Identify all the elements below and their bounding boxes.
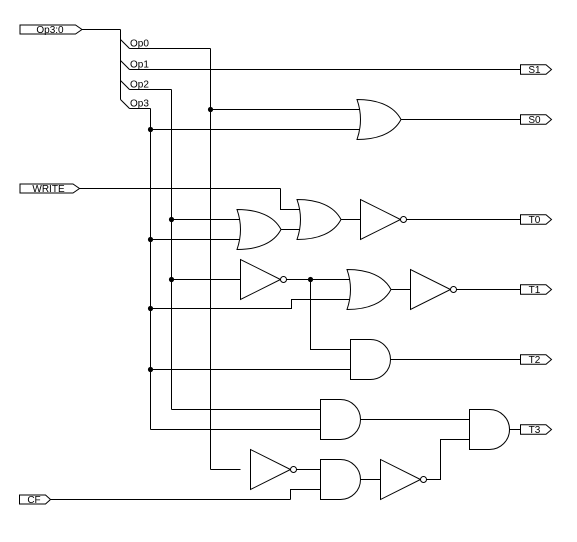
svg-text:Op1: Op1 (130, 60, 149, 71)
output tag S0 (521, 115, 552, 125)
wire U3 output to U4 input (341, 219, 361, 221)
inverter U5 (241, 260, 281, 300)
junction Op2/U2 (169, 217, 174, 222)
svg-text:CF: CF (27, 495, 40, 506)
wire branch taper Op2 (121, 81, 130, 90)
junction Op3/U8 (148, 367, 153, 372)
wire WRITE horizontal (80, 188, 281, 190)
wire Op3 to U2 or-gate input B (151, 239, 244, 241)
wire CF horizontal (51, 499, 291, 501)
wire Op3 to U9 and-gate input B (151, 429, 321, 431)
wire U5 output branch to U8 input A (311, 280, 351, 350)
output tag T2 (521, 355, 552, 365)
and-gate U8 (T2) (351, 340, 391, 380)
wire U11 output to U12 input A (297, 469, 321, 471)
junction Op3/U2 (148, 237, 153, 242)
wire Op2 to U5 inverter input (172, 279, 241, 281)
svg-text:Op3:0: Op3:0 (36, 25, 64, 36)
inverter U13 (381, 460, 421, 500)
and-gate U10 (T3) (470, 410, 510, 450)
and-gate U9 (321, 400, 361, 440)
wire U4 output to T0 (407, 219, 521, 221)
output tag T0 (521, 215, 552, 225)
wire U5 output to U6 input A (287, 279, 353, 281)
junction Op3/U1 (148, 127, 153, 132)
wire bus Op3:0 vertical (120, 30, 122, 100)
wire Op3 vertical (150, 109, 152, 430)
wire Op0 horizontal (130, 48, 211, 50)
svg-text:T0: T0 (529, 215, 541, 226)
wire U9 output to U10 input A (361, 419, 470, 421)
svg-text:Op0: Op0 (130, 39, 149, 50)
junction Op0/U1 (208, 107, 213, 112)
or-gate U6 (T1) (347, 270, 391, 310)
and-gate U12 (321, 460, 361, 500)
svg-text:T3: T3 (529, 425, 541, 436)
output tag T1 (521, 285, 552, 295)
wire CF step up to U12 input B (291, 490, 321, 500)
output tag T3 (521, 425, 552, 435)
wire U12 output to U13 input (361, 479, 381, 481)
junction Op2/U5 (169, 277, 174, 282)
svg-text:S0: S0 (528, 115, 541, 126)
wire bus Op3:0 horizontal (82, 29, 121, 31)
inverter U11 (251, 450, 291, 490)
svg-text:S1: S1 (528, 65, 541, 76)
wire Op2 vertical (171, 90, 173, 410)
or-gate U2 (237, 210, 281, 250)
wire Op3 to U8 and-gate input B (151, 369, 351, 371)
wire Op3 to U1 or-gate input B (151, 129, 364, 131)
wire U7 output to T1 (457, 289, 521, 291)
wire WRITE branch down to U3 input A (281, 189, 304, 210)
wire Op0 vertical (210, 49, 212, 470)
svg-text:Op2: Op2 (130, 80, 149, 91)
or-gate U1 (S0) (357, 100, 401, 140)
output tag S1 (521, 65, 552, 75)
wire Op0 to U1 or-gate input A (211, 109, 364, 111)
wire branch taper Op3 (121, 100, 130, 109)
svg-text:Op3: Op3 (130, 99, 149, 110)
wire U10 output to T3 (510, 429, 521, 431)
junction U5 output node (308, 277, 313, 282)
wire U6 output to U7 input (391, 289, 411, 291)
wire Op3 to U6 or-gate input B (step) (151, 300, 353, 309)
svg-text:T2: T2 (529, 355, 541, 366)
input tag CF (20, 495, 51, 504)
wire Op3 horizontal (130, 108, 151, 110)
wire U2 output to U3 input B (281, 229, 303, 231)
wire U1 output to S0 (401, 119, 521, 121)
wire Op2 horizontal (130, 89, 172, 91)
wire Op2 to U2 or-gate input A (172, 219, 244, 221)
input tag Op3:0 (20, 25, 82, 34)
wire branch taper Op1 (121, 61, 130, 70)
wire Op1 to S1 (130, 69, 521, 71)
wire U8 output to T2 (391, 359, 521, 361)
wire Op2 to U9 and-gate input A (172, 409, 321, 411)
svg-text:T1: T1 (529, 285, 541, 296)
inverter U4 (T0) (361, 200, 401, 240)
or-gate U3 (297, 200, 341, 240)
wire U13 output up to U10 input B (427, 440, 470, 480)
wire branch taper Op0 (121, 40, 130, 49)
inverter U7 (411, 270, 451, 310)
input tag WRITE (20, 184, 80, 193)
svg-text:WRITE: WRITE (32, 184, 65, 195)
wire Op0 to U11 inverter input (211, 469, 241, 471)
junction Op3/U6 (148, 306, 153, 311)
